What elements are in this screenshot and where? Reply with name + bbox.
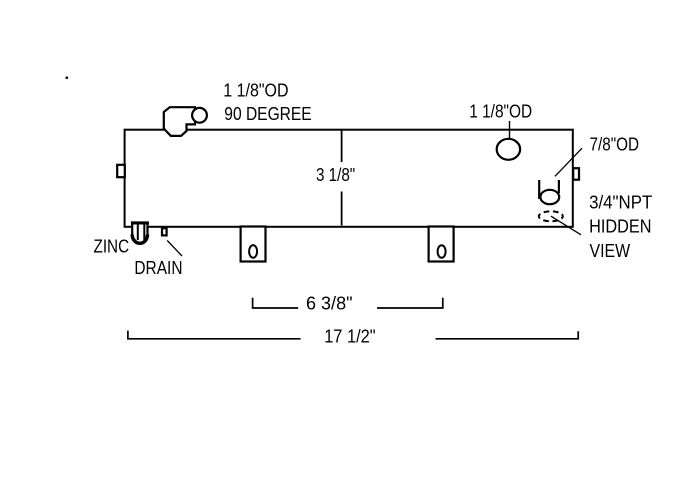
tank body outline: [125, 130, 573, 227]
zinc anode inner wall left: [137, 224, 139, 240]
right mounting tab: [573, 168, 579, 180]
svg-text:6 3/8": 6 3/8": [306, 294, 353, 314]
left mounting tab: [117, 165, 125, 177]
svg-text:17 1/2": 17 1/2": [324, 326, 375, 346]
stray dot: [66, 76, 69, 79]
svg-text:ZINC: ZINC: [94, 236, 130, 256]
leader line 7/8 OD: [555, 148, 582, 176]
svg-text:VIEW: VIEW: [590, 241, 631, 261]
svg-text:HIDDEN: HIDDEN: [589, 217, 651, 237]
drain plug square: [162, 228, 167, 235]
zinc anode inner wall right: [143, 224, 145, 240]
zinc anode bottom thick arc: [132, 235, 147, 244]
7/8 OD tube end ellipse: [540, 190, 559, 204]
17 1/2 dimension line: [128, 331, 578, 339]
drain leader line: [167, 241, 182, 257]
svg-text:1 1/8"OD: 1 1/8"OD: [469, 102, 532, 122]
svg-text:1 1/8"OD: 1 1/8"OD: [223, 81, 288, 101]
mounting bracket 1: [241, 227, 266, 262]
90 degree elbow tube circle: [192, 108, 207, 123]
leader line to inlet circle: [509, 121, 511, 147]
zinc anode body: [132, 223, 147, 244]
zinc anode top bar: [131, 222, 149, 225]
3 1/8 dimension line lower segment: [341, 192, 343, 226]
svg-text:90 DEGREE: 90 DEGREE: [224, 104, 311, 124]
svg-text:3/4"NPT: 3/4"NPT: [589, 192, 652, 212]
leader line 3/4 NPT hidden view: [551, 216, 581, 235]
svg-text:7/8"OD: 7/8"OD: [590, 135, 640, 155]
svg-text:DRAIN: DRAIN: [134, 258, 182, 278]
mounting bracket 2: [429, 227, 454, 262]
6 3/8 dimension line: [253, 298, 443, 308]
hidden 3/4 NPT dashed ellipse: [539, 211, 563, 221]
bracket 1 hole: [249, 245, 257, 258]
svg-text:3 1/8": 3 1/8": [316, 165, 355, 185]
bracket 2 hole: [438, 245, 446, 258]
90 degree elbow fitting body: [164, 107, 195, 136]
3 1/8 dimension line upper segment: [341, 131, 343, 163]
7/8 OD tube side walls: [538, 180, 540, 199]
